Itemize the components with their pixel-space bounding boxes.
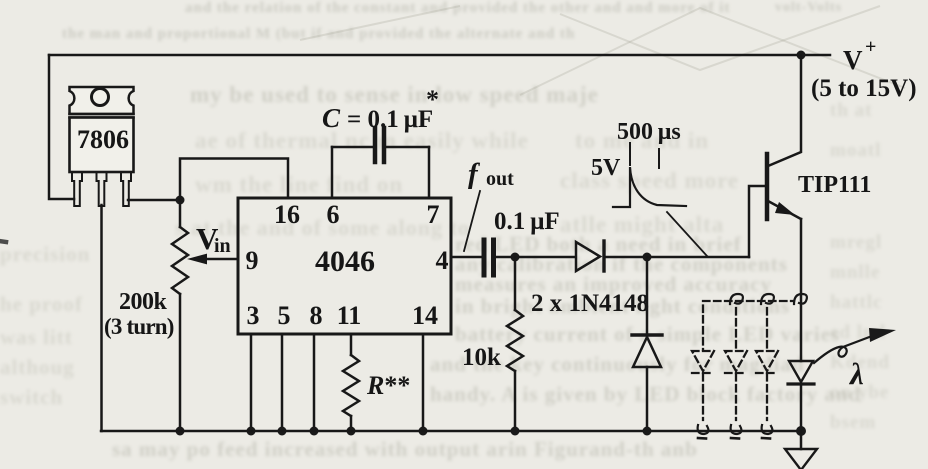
wire: top V+ rail — [49, 54, 830, 57]
node: pin 3 ground junction — [247, 427, 256, 436]
dashed optional LED bank — [692, 301, 794, 420]
wire: junction down to second LED — [800, 431, 803, 449]
wire: up to transistor base — [749, 186, 766, 257]
label V+ — [843, 36, 876, 75]
series diode 1N4148 — [576, 242, 600, 271]
capacitor C 0.1uF (plates) — [375, 128, 384, 162]
7806 pin 2 (ground) leg — [97, 172, 107, 206]
IC U1 4046 body — [238, 198, 451, 334]
wire: LED to ground rail — [800, 384, 803, 431]
wiper arrowhead — [187, 254, 207, 265]
node: potentiometer / ground rail junction — [176, 427, 185, 436]
svg-text:6: 6 — [327, 200, 340, 229]
svg-text:3: 3 — [247, 301, 260, 330]
svg-text:(5 to 15V): (5 to 15V) — [811, 75, 917, 102]
waveform sketch: 5V pulse — [613, 167, 686, 207]
svg-text:f: f — [468, 158, 481, 190]
clamp diode 1N4148 (triangle, cathode up) — [633, 337, 661, 367]
label Vin — [196, 221, 231, 257]
lambda arrowhead — [869, 328, 896, 342]
potentiometer 200k body (zigzag) — [172, 227, 188, 294]
svg-text:0.1 μF: 0.1 μF — [494, 208, 560, 235]
svg-text:V: V — [843, 45, 863, 75]
wire: clamp diode to ground rail — [646, 367, 649, 431]
svg-text:11: 11 — [337, 301, 362, 330]
svg-text:R**: R** — [366, 371, 410, 400]
wire: timing cap right connection — [386, 146, 429, 149]
wire: pin 4 output — [451, 256, 481, 259]
svg-text:200k: 200k — [119, 289, 168, 315]
svg-text:16: 16 — [274, 200, 300, 229]
node: collector junction on V+ rail — [797, 51, 806, 60]
svg-text:14: 14 — [412, 301, 438, 330]
svg-text:7806: 7806 — [77, 125, 129, 154]
svg-text:TIP111: TIP111 — [798, 172, 871, 198]
svg-text:5: 5 — [278, 301, 291, 330]
svg-text:10k: 10k — [462, 344, 501, 371]
node: clamp diode ground junction — [643, 427, 652, 436]
svg-text:2 x 1N4148: 2 x 1N4148 — [531, 290, 649, 317]
svg-text:λ: λ — [848, 356, 864, 391]
svg-text:500 μs: 500 μs — [617, 119, 681, 145]
dashed LED 1 bar — [692, 372, 714, 374]
wire: pin 8 to ground rail — [313, 334, 316, 431]
wire: ground rail — [101, 430, 802, 433]
wire: 7806 output to junction — [128, 199, 180, 202]
wire: pin 7 up to timing cap — [428, 147, 431, 198]
transistor Q1 TIP111 base bar — [765, 154, 770, 219]
dashed LED branch 1 vertical — [702, 316, 704, 420]
dashed LED 1 triangle — [692, 351, 714, 371]
svg-text:= 0.1 μF: = 0.1 μF — [347, 106, 433, 133]
svg-text:+: + — [865, 36, 876, 58]
wire: junction up and over to pin 16 — [180, 159, 288, 201]
label C = 0.1 uF* — [322, 85, 439, 133]
wire: 10k bottom lead — [514, 371, 517, 431]
dashed LED 2 triangle — [725, 351, 747, 371]
node: clamp diode junction — [643, 253, 652, 262]
node: LED chain ground junction — [796, 426, 806, 436]
LED D3 (triangle) — [789, 361, 813, 382]
wire: 7806 ground leg down to bottom rail — [100, 205, 103, 431]
svg-text:9: 9 — [246, 246, 259, 275]
label fout — [468, 158, 514, 190]
svg-text:out: out — [486, 168, 514, 190]
wire: emitter down to LED — [800, 219, 803, 361]
emitter arrowhead — [775, 202, 795, 215]
LED D4 (triangle, cut off at bottom) — [785, 449, 817, 469]
wire: pin 5 to ground rail — [281, 334, 284, 431]
lambda light emission arrow (squiggle) — [814, 336, 872, 363]
wire: R** bottom lead — [350, 416, 353, 431]
svg-text:8: 8 — [310, 301, 323, 330]
regulator 7806 (TO-220 package) — [70, 87, 134, 172]
node: 10k junction — [511, 253, 520, 262]
dashed LED 2 bar — [725, 372, 747, 374]
wire: diode to transistor base branch — [604, 256, 749, 259]
wire: left vertical rail from V+ rail to regulator input — [49, 55, 74, 199]
svg-text:in: in — [214, 235, 231, 257]
dashed LED branch 3 vertical — [766, 308, 768, 420]
wire: timing cap left connection — [332, 146, 373, 149]
node: pin 8 ground junction — [310, 427, 319, 436]
svg-text:*: * — [426, 85, 439, 114]
transistor emitter lead — [768, 201, 801, 219]
svg-text:4046: 4046 — [315, 245, 375, 278]
wire: clamp diode top lead — [646, 257, 649, 335]
wire: wiper from pin 9 — [206, 258, 238, 261]
waveform pointer line to base wire — [667, 212, 707, 256]
wire: cap to series diode — [494, 256, 575, 259]
wire: potentiometer top lead — [179, 200, 182, 227]
wire: potentiometer bottom lead to ground rail — [179, 294, 182, 431]
waveform tick marks under 500us — [630, 143, 659, 168]
svg-text:C: C — [322, 103, 341, 133]
resistor R** (zigzag) — [343, 355, 359, 416]
node: pin 5 ground junction — [278, 427, 287, 436]
7806 pin 1 (input) leg — [72, 172, 82, 206]
wire: pin 11 top lead — [350, 334, 353, 355]
LED D3 cathode bar — [788, 382, 814, 385]
transistor collector lead — [768, 55, 801, 166]
dashed LED branch 2 vertical — [735, 308, 737, 420]
wire: pin 6 up to timing cap — [331, 147, 334, 198]
dashed LED 3 triangle — [756, 351, 778, 371]
connection hook curls on dashed branches — [698, 294, 807, 439]
dashed top bus wire — [703, 301, 794, 312]
svg-text:4: 4 — [436, 246, 449, 275]
scan artifact at left edge — [0, 241, 6, 242]
label fout pointer line — [464, 191, 480, 251]
wire: pin 3 to ground rail — [250, 334, 253, 431]
svg-text:(3 turn): (3 turn) — [104, 314, 174, 339]
series diode cathode bar — [602, 241, 605, 271]
resistor 10k (zigzag) — [507, 310, 523, 371]
svg-text:7: 7 — [427, 200, 440, 229]
coupling capacitor 0.1uF (plates) — [484, 240, 494, 275]
node: regulator output junction — [176, 196, 185, 205]
svg-text:5V: 5V — [591, 155, 621, 181]
7806 pin 3 (output) leg — [121, 172, 131, 206]
node: 10k ground junction — [511, 427, 520, 436]
wire: pin 14 to ground rail — [422, 334, 425, 431]
node: pin 14 ground junction — [419, 427, 428, 436]
wire: 10k top lead — [514, 257, 517, 310]
dashed LED 3 bar — [756, 372, 778, 374]
clamp diode cathode bar — [632, 333, 662, 336]
node: pin 11 ground junction — [347, 427, 356, 436]
